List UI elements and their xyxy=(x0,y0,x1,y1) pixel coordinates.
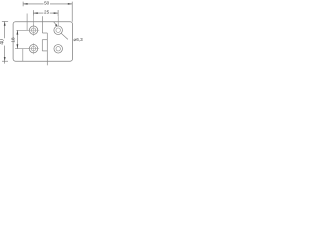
dim top left tick xyxy=(22,2,24,7)
dim inner bottom arrow xyxy=(17,44,19,48)
hole BL outer xyxy=(29,45,37,53)
hole TR leader with arrow xyxy=(54,22,57,25)
dim2 extension to hole TL xyxy=(33,16,35,26)
knuckle jog bottom xyxy=(42,50,47,52)
slot line top leaf xyxy=(26,14,28,31)
dim2 right arrow xyxy=(54,12,58,14)
dimension line left (overall height) xyxy=(4,22,6,64)
dimension line 2 (hole spacing horizontal) xyxy=(34,12,59,14)
knuckle left edge upper segment xyxy=(41,16,43,33)
hole BL inner xyxy=(31,47,35,51)
knuckle right edge / pin line xyxy=(46,33,48,65)
dim2 extension to hole TR xyxy=(57,16,59,26)
dim2 left tick xyxy=(32,10,34,15)
dimension line inner (hole spacing vertical) xyxy=(16,30,18,48)
dim top left arrow xyxy=(23,3,27,5)
dim top right extension xyxy=(71,2,73,22)
hole TL crosshair xyxy=(28,25,39,36)
svg-text:50: 50 xyxy=(44,1,50,6)
dim left top arrow xyxy=(4,22,6,26)
hole BR inner xyxy=(56,47,60,51)
plate outline xyxy=(13,22,72,62)
hole row extension bottom xyxy=(15,48,29,50)
hole TR outer xyxy=(54,26,63,35)
background xyxy=(0,0,90,71)
hole BR outer xyxy=(54,45,63,54)
dim top right arrow xyxy=(68,3,72,5)
svg-text:18: 18 xyxy=(11,37,16,43)
hole TR inner xyxy=(56,28,60,32)
hole BL crosshair xyxy=(28,43,39,54)
dim2 left arrow xyxy=(34,12,38,14)
knuckle left edge lower segment xyxy=(41,40,43,51)
dimension line top (overall width) xyxy=(23,3,72,5)
hole TL outer xyxy=(29,26,37,34)
leader line for hole diameter xyxy=(61,33,68,39)
svg-text:⌀6,3: ⌀6,3 xyxy=(74,37,84,42)
knuckle jog middle xyxy=(42,39,47,41)
dim2 right tick xyxy=(57,10,59,16)
hole TL inner xyxy=(31,28,35,32)
slot line bottom leaf xyxy=(22,49,24,62)
dim left bottom arrow xyxy=(4,57,6,61)
svg-text:25: 25 xyxy=(44,9,50,14)
hole row extension top xyxy=(16,29,29,31)
dim left bottom tick xyxy=(2,60,8,62)
dim inner top arrow xyxy=(17,30,19,34)
knuckle jog top xyxy=(42,32,47,34)
svg-text:40: 40 xyxy=(0,39,5,45)
dim left top tick xyxy=(2,21,8,23)
